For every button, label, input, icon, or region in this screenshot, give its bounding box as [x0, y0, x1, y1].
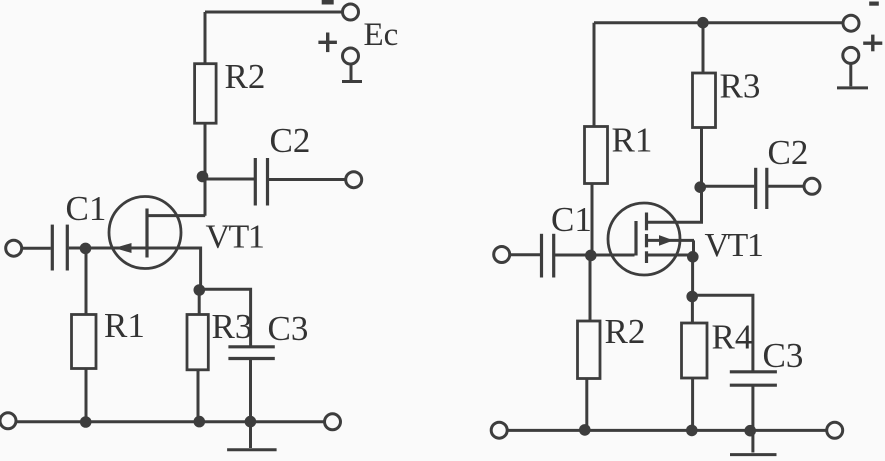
- wire: base node down to R1: [85, 248, 88, 314]
- wire: source node to C3: [692, 295, 753, 372]
- svg-text:C2: C2: [270, 121, 311, 160]
- svg-text:C3: C3: [268, 309, 309, 348]
- resistor R2 (left): [195, 64, 217, 123]
- node: junction dot R4/ground rail (right): [686, 425, 698, 437]
- terminal: right ground rail left end (open circle): [491, 422, 507, 438]
- transistor VT1 (left) emitter arrow: [115, 243, 132, 253]
- ground: left circuit ground bar: [227, 448, 277, 451]
- resistor R4 (right): [682, 323, 708, 378]
- node: junction dot R2/ground rail (right): [579, 424, 591, 436]
- capacitor C2 (right): [754, 168, 757, 209]
- resistor R3 (left): [187, 315, 208, 370]
- svg-text:R1: R1: [612, 121, 653, 160]
- wire: right top supply rail: [594, 21, 844, 24]
- node: junction dot R1/ground rail: [80, 416, 92, 428]
- capacitor C3 (left): [228, 345, 274, 348]
- node: junction dot C3/ground rail: [245, 416, 257, 428]
- wire: R3 bottom to drain node and down to transistor drain: [700, 128, 703, 223]
- capacitor C3 (right): [730, 370, 777, 373]
- wire: right ground rail: [507, 429, 828, 432]
- transistor VT1 (right) channel dash middle: [645, 234, 648, 247]
- node: right source junction dot: [687, 251, 699, 263]
- terminal: left ground rail left end (open circle): [0, 413, 16, 429]
- terminal: right supply negative (open circle): [843, 15, 859, 31]
- capacitor C1 (right): [540, 234, 543, 278]
- capacitor C1 (left): [51, 225, 54, 271]
- wire: collector node to C2: [204, 178, 256, 181]
- svg-text:C1: C1: [66, 189, 107, 228]
- transistor VT1 (left) collector stub: [147, 214, 205, 217]
- transistor VT1 (right) bulk arrow: [659, 235, 674, 246]
- resistor R1 (left): [72, 315, 97, 369]
- transistor VT1 (right) drain stub up to drain node: [647, 187, 702, 222]
- label: minus sign of right supply: [869, 2, 879, 6]
- terminal: right input (open circle): [494, 247, 510, 263]
- label: plus sign of left supply: [318, 33, 337, 53]
- terminal: right supply positive (open circle): [843, 47, 859, 63]
- svg-text:VT1: VT1: [705, 227, 763, 264]
- wire: C3 bottom through ground rail to ground symbol: [249, 359, 252, 449]
- svg-text:R4: R4: [712, 318, 753, 357]
- transistor VT1 (right) gate bar: [634, 221, 637, 256]
- terminal: left output (open circle): [346, 172, 362, 188]
- wire: drain node to C2: [701, 185, 754, 188]
- node: left collector junction dot: [197, 171, 209, 183]
- wire: C2 to output terminal: [268, 178, 347, 181]
- wire: input terminal to C1: [21, 247, 51, 250]
- terminal: left supply negative (open circle): [343, 4, 359, 20]
- wire: left top supply rail: [205, 11, 343, 14]
- transistor VT1 (right, MOSFET) body circle: [608, 203, 680, 275]
- terminal: right output (open circle): [804, 178, 820, 194]
- terminal: left supply positive (open circle): [343, 48, 359, 64]
- wire: R2 bottom to ground rail: [585, 379, 588, 431]
- wire: R3 bottom to ground rail: [197, 370, 200, 422]
- transistor VT1 (left) base bar: [145, 209, 148, 258]
- label: minus sign of left supply: [322, 0, 334, 5]
- svg-text:R3: R3: [212, 307, 253, 346]
- transistor VT1 (right) channel dash top: [645, 213, 648, 231]
- wire: C3 bottom through ground rail to ground symbol: [751, 385, 754, 452]
- transistor VT1 (right) bulk stub with arrow: [647, 239, 695, 242]
- wire: R2 bottom to collector node and into transistor: [204, 123, 207, 216]
- svg-text:VT1: VT1: [206, 219, 264, 256]
- wire: R1 bottom down to gate node: [591, 184, 594, 256]
- node: junction dot R3/ground rail: [194, 416, 206, 428]
- wire: C1 to gate bar: [554, 254, 635, 257]
- wire: C2 to output terminal: [767, 185, 805, 188]
- svg-text:C3: C3: [763, 336, 804, 375]
- wire: right top rail down to R3: [702, 23, 705, 73]
- terminal: right ground rail right end (open circle): [827, 422, 843, 438]
- ground: left supply ground stub: [350, 64, 353, 82]
- transistor VT1 (right) source stub: [647, 254, 694, 257]
- node: right gate junction dot: [585, 250, 597, 262]
- terminal: left input (open circle): [6, 240, 22, 256]
- resistor R1 (right): [585, 127, 608, 184]
- wire: emitter node down to R3: [198, 290, 201, 315]
- wire: C1 to transistor base, crossing circle, bending down to emitter node: [69, 248, 201, 290]
- wire: source node down to R4: [691, 297, 694, 324]
- wire: emitter node to C3: [199, 289, 250, 347]
- wire: R4 bottom to ground rail: [691, 378, 694, 431]
- wire: bulk tie down to source: [692, 240, 695, 257]
- node: left emitter junction dot: [194, 284, 206, 296]
- wire: left ground rail: [16, 420, 326, 423]
- node: right drain junction dot: [694, 181, 706, 193]
- node: right source branch junction dot: [686, 291, 698, 303]
- svg-text:R2: R2: [225, 57, 266, 96]
- svg-text:R2: R2: [605, 312, 646, 351]
- wire: right top rail down to R1: [593, 23, 596, 127]
- resistor R2 (right): [578, 321, 601, 379]
- label: plus sign of right supply: [863, 35, 882, 52]
- node: junction dot C3/ground rail (right): [744, 425, 756, 437]
- ground: right supply ground stub: [849, 63, 852, 86]
- terminal: left ground rail right end (open circle): [325, 414, 341, 430]
- wire: source down to source node: [691, 255, 694, 297]
- svg-text:C2: C2: [768, 133, 809, 172]
- svg-text:R1: R1: [104, 306, 145, 345]
- wire: top rail down to R2: [204, 12, 207, 64]
- resistor R3 (right): [693, 73, 716, 128]
- wire: R2 branch from gate node down: [589, 255, 592, 321]
- svg-text:R3: R3: [720, 67, 761, 106]
- svg-text:C1: C1: [551, 200, 592, 239]
- transistor VT1 (left, BJT) body circle: [109, 197, 181, 269]
- node: left base junction dot: [80, 243, 92, 255]
- wire: R1 bottom to ground rail: [85, 369, 88, 423]
- node: junction dot on right top rail: [697, 17, 709, 29]
- svg-text:Ec: Ec: [364, 17, 399, 53]
- ground: right circuit ground bar: [730, 453, 777, 456]
- capacitor C2 (left): [254, 158, 257, 206]
- transistor VT1 (right) channel dash bottom: [645, 251, 648, 263]
- wire: input terminal to C1: [509, 253, 540, 256]
